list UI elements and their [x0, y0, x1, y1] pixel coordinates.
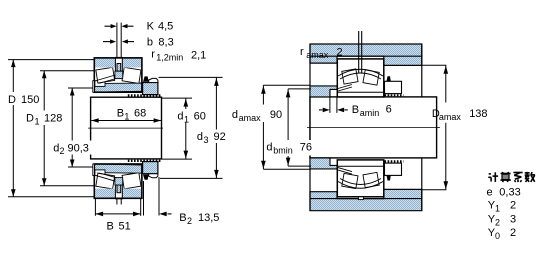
svg-text:1: 1: [124, 112, 129, 122]
dimension B2 13,5: [144, 177, 172, 216]
lock washer slot upper: [115, 57, 122, 71]
washer tab bump lower right view: [358, 197, 363, 200]
housing outer edge right: [421, 44, 423, 211]
label Y0 2: [488, 227, 516, 241]
svg-text:bmin: bmin: [273, 145, 293, 155]
rollers lower: [96, 172, 141, 189]
inner ring left face relief upper: [95, 81, 105, 87]
label d1 60: [176, 109, 208, 125]
svg-text:2: 2: [510, 227, 516, 239]
washer tab lines lower: [117, 198, 121, 204]
label D1 128: [24, 111, 66, 127]
housing top section: [310, 44, 422, 65]
svg-text:D: D: [8, 94, 16, 106]
right lock nut lower: [385, 163, 402, 180]
label d3 92: [196, 130, 229, 146]
housing bore line top: [310, 55, 422, 57]
svg-text:d: d: [266, 141, 272, 153]
svg-text:2: 2: [510, 200, 516, 212]
bearing lower outline: [94, 164, 142, 198]
lock nut upper step: [149, 78, 158, 82]
sleeve thread lower: [128, 160, 161, 162]
right bearing upper box: [337, 59, 384, 97]
svg-text:2,1: 2,1: [191, 49, 206, 61]
svg-text:amax: amax: [239, 113, 262, 123]
svg-text:D: D: [26, 112, 34, 124]
rollers upper: [96, 67, 141, 84]
svg-text:1: 1: [35, 116, 40, 126]
sleeve thread upper: [128, 94, 161, 96]
svg-text:B: B: [352, 104, 359, 116]
centerline left view: [88, 127, 163, 129]
svg-text:amin: amin: [360, 108, 380, 118]
washer tab pin upper: [117, 64, 121, 72]
label calculation factors (CJK): [488, 172, 535, 182]
dimension B amin: [319, 90, 348, 113]
label Y2 3: [488, 213, 516, 227]
svg-text:3: 3: [510, 213, 516, 225]
svg-text:B: B: [117, 108, 124, 120]
label K 4,5: [147, 21, 174, 33]
label r 1,2min 2,1: [151, 49, 206, 63]
shaft: [91, 97, 162, 159]
label d2 90,3: [51, 141, 92, 157]
label Y1 2: [488, 200, 516, 214]
dimension d amax 90: [261, 85, 311, 169]
bearing upper section inner ring and sleeve: [94, 83, 142, 92]
svg-text:amax: amax: [439, 112, 462, 122]
label B1 68: [117, 108, 147, 122]
svg-text:68: 68: [134, 108, 146, 120]
svg-text:r: r: [151, 49, 155, 61]
svg-text:128: 128: [44, 112, 62, 124]
svg-text:6: 6: [386, 104, 392, 116]
svg-text:3: 3: [204, 135, 209, 145]
guide ring upper: [115, 71, 123, 78]
dimension B1 68: [91, 118, 161, 123]
svg-text:b: b: [147, 36, 153, 48]
label D 150: [4, 92, 41, 106]
label d bmin 76: [265, 140, 314, 156]
svg-text:90: 90: [270, 109, 282, 121]
svg-text:60: 60: [194, 111, 206, 123]
svg-text:0,33: 0,33: [499, 186, 520, 198]
right lock nut upper: [385, 76, 402, 93]
svg-text:amax: amax: [306, 50, 329, 60]
label d amax 90: [231, 105, 284, 123]
svg-text:B: B: [179, 212, 186, 224]
dimension d bmin 76: [286, 89, 311, 166]
svg-text:92: 92: [214, 131, 226, 143]
lock nut lower step: [149, 174, 158, 178]
dimension B 51: [95, 198, 140, 216]
dimension D 150: [8, 60, 94, 197]
lock nut upper: [143, 83, 158, 95]
svg-text:1: 1: [184, 115, 189, 125]
svg-text:150: 150: [21, 94, 39, 106]
dimension b arrows: [103, 39, 134, 43]
right bearing lower internals: [337, 166, 384, 188]
lock washer tab upper: [143, 76, 149, 81]
washer tab pin lower: [117, 185, 121, 193]
right bearing upper internals: [337, 69, 384, 92]
svg-text:2: 2: [187, 216, 192, 226]
sleeve lip upper: [93, 81, 95, 93]
label r amax 2: [300, 46, 343, 60]
housing bottom section: [310, 189, 422, 210]
svg-text:d: d: [232, 109, 238, 121]
svg-text:d: d: [53, 142, 59, 154]
svg-text:d: d: [177, 111, 183, 123]
right thread lower: [385, 160, 404, 162]
dimension d3 92: [159, 77, 223, 178]
svg-text:76: 76: [300, 141, 312, 153]
guide ring lower: [115, 178, 123, 185]
svg-text:K: K: [147, 21, 155, 33]
shaft shoulder lower: [310, 158, 337, 169]
lock washer tab lower: [143, 175, 149, 180]
svg-text:13,5: 13,5: [198, 212, 219, 224]
right bearing lower box: [337, 160, 384, 197]
label B 51: [107, 220, 131, 232]
dimension d2 90,3: [68, 88, 93, 167]
svg-text:138: 138: [469, 108, 487, 120]
label b 8,3: [147, 36, 174, 48]
housing bore line bottom: [310, 198, 422, 200]
svg-text:2: 2: [337, 47, 343, 59]
washer tab lines upper: [117, 23, 121, 58]
svg-text:1: 1: [495, 204, 500, 214]
svg-text:4,5: 4,5: [158, 21, 173, 33]
right thread upper: [385, 94, 404, 96]
svg-text:51: 51: [119, 220, 131, 232]
lock nut lower: [143, 162, 158, 174]
svg-text:r: r: [300, 46, 304, 58]
svg-text:2: 2: [495, 217, 500, 227]
svg-text:B: B: [107, 220, 114, 232]
svg-text:d: d: [197, 131, 203, 143]
dimension D1 128: [40, 71, 94, 186]
right washer tab lines: [359, 31, 362, 73]
bearing lower section outer ring: [94, 164, 142, 198]
bearing upper section outer ring: [94, 58, 142, 92]
lock washer slot lower: [115, 185, 122, 199]
svg-text:2: 2: [60, 146, 65, 156]
dimension K arrows: [105, 24, 134, 28]
inner ring left face relief lower: [95, 170, 105, 176]
svg-text:e: e: [487, 186, 493, 198]
label e 0,33: [487, 186, 521, 198]
svg-text:0: 0: [495, 231, 500, 241]
centerline right view: [307, 126, 440, 128]
svg-text:8,3: 8,3: [158, 36, 173, 48]
bearing lower section inner ring and sleeve: [94, 164, 142, 173]
label D amax 138: [432, 108, 488, 122]
shaft shoulder upper: [310, 86, 337, 97]
label B2 13,5: [179, 212, 219, 226]
svg-text:1,2min: 1,2min: [156, 53, 183, 63]
housing outer edge left: [309, 44, 311, 211]
label B amin 6: [352, 104, 392, 118]
sleeve lip lower: [93, 164, 95, 176]
dimension d1 60: [162, 98, 193, 159]
shaft right view: [310, 97, 437, 158]
svg-text:90,3: 90,3: [68, 142, 89, 154]
dimension D amax 138: [422, 65, 448, 190]
bearing upper outline: [94, 58, 142, 92]
